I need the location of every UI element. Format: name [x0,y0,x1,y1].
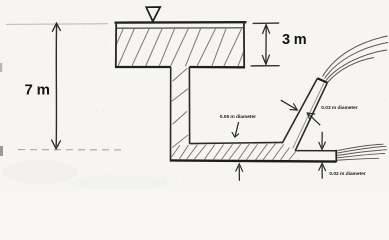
horizontal pipe top edge [190,142,283,143]
horizontal pipe hatching [169,143,310,162]
inclined pipe inner wall [295,83,327,151]
dimension extension line top (7 m) [6,23,108,26]
svg-text:0.03 m diameter: 0.03 m diameter [321,105,357,111]
scan mark left edge lower [0,146,3,156]
water level symbol (inverted triangle) [146,7,160,21]
vertical pipe left wall [170,67,172,160]
tank bottom edge right part [189,66,245,69]
scan smudge bottom-left [2,160,78,184]
horizontal pipe bottom edge [170,160,336,161]
arrowhead up (7 m) [52,23,60,32]
inclined pipe inner shading line [293,82,325,149]
arrow to inclined pipe inner wall [308,114,320,125]
svg-text:3 m: 3 m [282,32,306,48]
inclined pipe mouth cap [317,78,327,82]
tank left wall [115,22,117,68]
outlet top edge (0.02 m section) [295,150,337,152]
svg-text:7 m: 7 m [25,82,50,99]
dimension arrow 3 m shaft [265,25,267,64]
arrow down to outlet top [321,132,323,148]
outlet end cap [335,150,337,162]
scan mark left edge upper [0,63,2,72]
arrow up to pipe bottom (left) [238,166,240,181]
dimension extension line bottom (7 m, dashed) [18,149,122,151]
water jet from inclined pipe [323,36,389,83]
tank right wall [243,22,245,68]
dimension arrow 7 m shaft [55,25,57,147]
tank water hatching [107,27,253,67]
arrowhead down (3 m) [262,55,269,65]
dimension tick bottom (3 m) [251,65,280,67]
svg-text:0.05 m diameter: 0.05 m diameter [220,114,256,120]
arrow to 0.05 m pipe [235,122,238,136]
arrowhead up (3 m) [262,25,269,34]
vertical pipe hatch marks [172,68,188,148]
water surface line [116,27,244,29]
tank bottom edge left part [115,66,171,68]
vertical pipe right wall [188,67,190,144]
tank top edge [115,21,247,24]
arrowhead down (7 m) [51,140,60,149]
arrow to inclined pipe outer wall [281,100,297,109]
dimension tick top (3 m) [253,22,280,24]
water jet from outlet [338,144,388,160]
svg-text:0.02 m diameter: 0.02 m diameter [329,171,365,177]
arrow up to outlet bottom [321,165,323,179]
inclined pipe outer wall [282,78,317,143]
